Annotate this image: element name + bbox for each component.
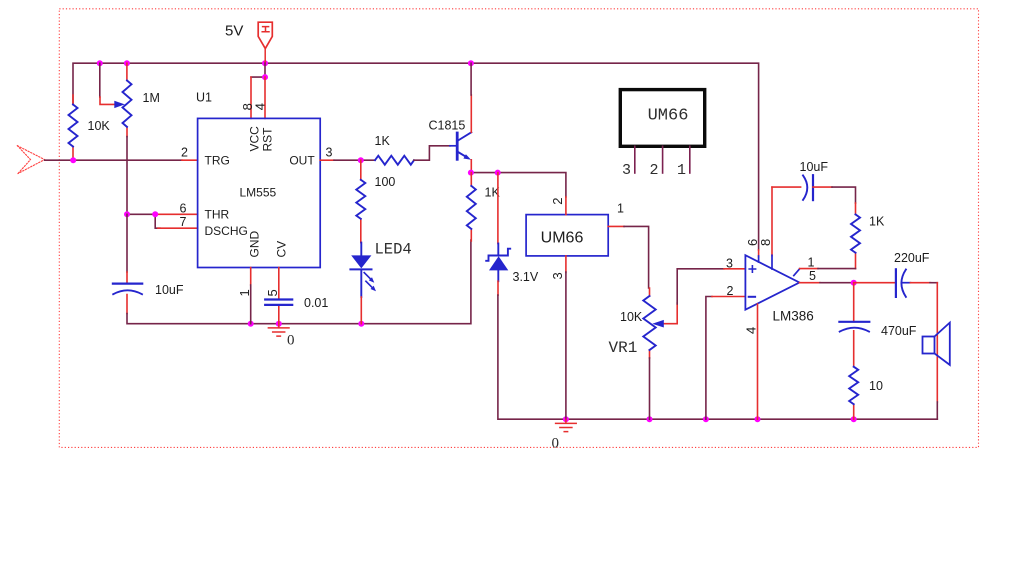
wire collector to bus — [470, 95, 472, 132]
wire VCC/RST supply jog — [251, 63, 265, 77]
wire bottom bus left — [127, 240, 471, 324]
svg-text:1: 1 — [237, 289, 252, 296]
pin 4 lead LM386 — [757, 304, 759, 419]
svg-text:10K: 10K — [88, 119, 111, 133]
LED4 light arrows — [364, 273, 372, 288]
wire 220uF to speaker — [910, 282, 930, 284]
potentiometer VR1 10K leads — [649, 288, 651, 358]
svg-text:1K: 1K — [375, 134, 391, 148]
svg-text:1M: 1M — [143, 91, 160, 105]
capacitor C 10uF — [113, 283, 142, 285]
svg-text:2: 2 — [650, 162, 659, 179]
node junction dot pin8/4 jog — [262, 74, 268, 80]
wire 470uF branch — [853, 283, 855, 322]
svg-text:5: 5 — [809, 269, 816, 283]
resistor R 10K left leads — [72, 95, 74, 160]
svg-text:10uF: 10uF — [800, 160, 829, 174]
svg-text:3: 3 — [726, 257, 733, 271]
pin 6 lead THR — [155, 213, 197, 215]
svg-text:4: 4 — [744, 327, 759, 334]
pin 1 lead UM66 — [608, 225, 624, 227]
svg-text:3: 3 — [622, 162, 631, 179]
node junction dot 10K/input — [70, 157, 76, 163]
svg-text:VR1: VR1 — [609, 339, 638, 357]
U1 pin names — [205, 126, 316, 258]
pin 2 lead TRG — [182, 159, 198, 161]
wire 1M bottom to THR — [126, 137, 128, 215]
pin 3 lead UM66 — [565, 256, 567, 273]
svg-text:OUT: OUT — [289, 154, 315, 168]
resistor R 1K (base) — [375, 156, 414, 165]
LED bottom lead — [360, 297, 362, 324]
op-amp U3 LM386 triangle — [745, 255, 799, 310]
wire THR net — [127, 214, 160, 228]
svg-text:CV: CV — [275, 241, 289, 258]
IC U2 UM66 body — [526, 215, 608, 256]
svg-text:THR: THR — [205, 208, 230, 222]
node IN input arrow (dotted) — [17, 146, 44, 174]
svg-text:0.01: 0.01 — [304, 296, 328, 310]
wire pin 2 LM386 — [706, 297, 712, 420]
resistor R 100 — [356, 180, 365, 219]
svg-text:UM66: UM66 — [648, 107, 689, 126]
pin 8 lead LM386 — [771, 187, 773, 256]
svg-text:10uF: 10uF — [155, 283, 184, 297]
svg-text:C1815: C1815 — [429, 119, 466, 133]
pin 5 lead CV — [278, 268, 280, 324]
wire top +5V bus — [73, 63, 759, 250]
svg-text:4: 4 — [252, 103, 267, 110]
svg-text:0: 0 — [287, 333, 295, 349]
svg-text:10: 10 — [869, 379, 883, 393]
svg-text:8: 8 — [758, 239, 773, 246]
VR1 wiper arrow — [663, 303, 677, 324]
transistor Q1 C1815 — [457, 132, 471, 159]
pin 8 lead U1 — [250, 77, 252, 118]
node junction dots bottom bus left — [248, 321, 365, 327]
resistor R 10K left — [69, 105, 78, 147]
svg-text:220uF: 220uF — [894, 251, 930, 265]
speaker LS1 — [923, 323, 950, 365]
sheet border — [59, 9, 978, 448]
svg-text:TRG: TRG — [205, 154, 230, 168]
svg-text:1: 1 — [677, 162, 686, 179]
svg-text:1: 1 — [617, 202, 624, 216]
resistor R 100 leads — [360, 160, 362, 242]
capacitor C 10uF feedback — [812, 175, 814, 200]
node junction dots THR — [124, 211, 130, 217]
svg-text:1: 1 — [808, 256, 815, 270]
svg-text:U1: U1 — [196, 91, 212, 105]
pin 5 lead LM386 output — [799, 282, 820, 284]
node junction dot OUT — [358, 157, 364, 163]
wire down to C 10uF — [126, 214, 128, 272]
capacitor C 470uF — [839, 321, 869, 323]
wire TRG input net — [45, 159, 182, 161]
svg-text:6: 6 — [180, 201, 187, 215]
IC UM66 package outline — [620, 90, 704, 147]
pin 6 lead LM386 — [758, 250, 760, 257]
svg-text:5: 5 — [265, 289, 280, 296]
wire cap to 1K — [813, 186, 832, 188]
pin 2 lead UM66 — [565, 197, 567, 215]
wire base net — [414, 146, 450, 160]
pin 4 lead U1 — [264, 77, 266, 118]
node junction dots bottom bus right — [563, 416, 857, 422]
svg-text:RST: RST — [261, 127, 275, 152]
svg-text:2: 2 — [181, 146, 188, 160]
resistor R 10 — [849, 367, 858, 405]
resistor R 10 leads — [853, 331, 855, 419]
pin 1 lead GND — [250, 268, 252, 286]
potentiometer 1M arrow — [114, 101, 125, 108]
svg-text:3: 3 — [326, 146, 333, 160]
svg-text:10K: 10K — [620, 310, 643, 324]
svg-text:0: 0 — [552, 436, 560, 452]
svg-text:LED4: LED4 — [375, 241, 412, 259]
svg-text:2: 2 — [727, 284, 734, 298]
diode D zener 3.1V — [497, 173, 499, 244]
svg-text:GND: GND — [247, 231, 261, 258]
node A junction dots on top bus — [97, 60, 474, 66]
wiper lead red — [100, 97, 114, 104]
ground 0 right — [556, 419, 577, 431]
diode LED4 — [350, 243, 371, 297]
op IC U1 LM555 body — [198, 118, 321, 267]
wire emitter node — [470, 160, 472, 173]
svg-text:DSCHG: DSCHG — [205, 224, 248, 238]
pin 2 lead LM386 — [712, 296, 745, 298]
svg-text:LM386: LM386 — [773, 309, 814, 324]
wire OUT net — [320, 159, 334, 161]
potentiometer VR1 10K — [643, 296, 655, 350]
pin 7 lead DSCHG — [158, 227, 198, 229]
resistor R 1K emitter leads — [470, 173, 472, 241]
svg-text:2: 2 — [550, 198, 565, 205]
svg-text:5V: 5V — [225, 23, 243, 40]
power 5V symbol — [258, 22, 272, 63]
svg-text:VCC: VCC — [247, 126, 261, 152]
plus input mark — [749, 266, 755, 272]
wire zener to ground bus — [497, 281, 499, 295]
pin 1 lead LM386 — [794, 269, 800, 276]
wire output to 220uF — [854, 282, 895, 284]
ground 0 left — [268, 324, 289, 336]
potentiometer 1M leads — [126, 63, 128, 136]
svg-text:UM66: UM66 — [541, 230, 584, 247]
node junction dots emitter net — [468, 170, 474, 176]
svg-text:1K: 1K — [869, 215, 885, 229]
minus input mark — [749, 296, 755, 298]
svg-text:470uF: 470uF — [881, 324, 917, 338]
resistor R 1K feedback — [851, 214, 860, 252]
wire wiper to pin3 LM386 — [677, 269, 724, 304]
potentiometer R 1M — [123, 81, 132, 127]
svg-text:LM555: LM555 — [240, 186, 277, 200]
wire 1M wiper branch — [99, 63, 101, 97]
svg-text:3: 3 — [550, 272, 565, 279]
capacitor C 220uF — [895, 269, 897, 297]
svg-text:3.1V: 3.1V — [513, 270, 539, 284]
resistor R 1K feedback leads — [855, 203, 857, 269]
svg-text:100: 100 — [375, 175, 396, 189]
svg-text:7: 7 — [180, 215, 187, 229]
pin 3 lead LM386 — [724, 268, 745, 270]
wire feedback loop pin 8 to cap — [772, 186, 801, 188]
capacitor C 0.01 — [265, 300, 292, 305]
resistor R 1K emitter — [467, 186, 476, 229]
UM66 package pins — [635, 146, 690, 173]
node junction dot output — [851, 280, 857, 286]
capacitor C 10uF leads — [126, 272, 128, 314]
